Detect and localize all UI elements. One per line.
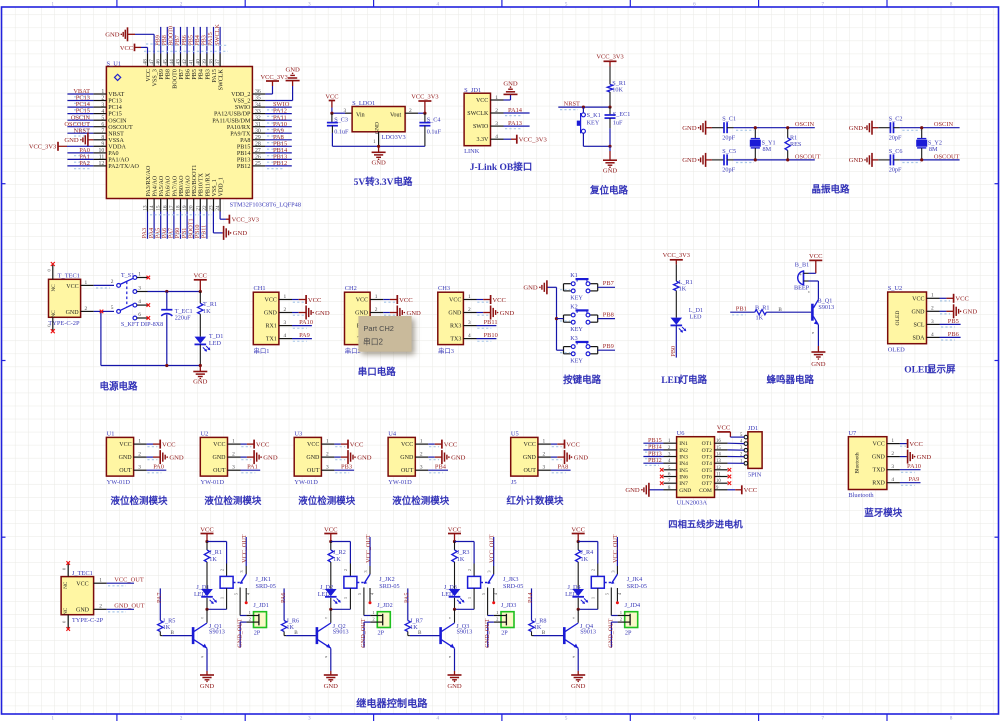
svg-text:GND: GND <box>324 683 339 690</box>
svg-text:VCC: VCC <box>76 582 88 588</box>
no-connect marks <box>147 276 151 320</box>
svg-text:SDA: SDA <box>912 335 925 341</box>
svg-text:1K: 1K <box>679 286 687 293</box>
svg-text:晶振电路: 晶振电路 <box>812 184 851 196</box>
wire PA8 <box>265 139 291 141</box>
wire power bottom rail <box>101 365 200 367</box>
connector S_JD1 body <box>464 93 490 146</box>
svg-text:46: 46 <box>156 59 162 65</box>
svg-text:PA8: PA8 <box>240 138 250 144</box>
wire PB14 <box>265 152 291 154</box>
svg-text:2: 2 <box>591 569 596 571</box>
svg-text:PB2/BOOT1: PB2/BOOT1 <box>192 165 198 197</box>
capacitor S_C4 <box>419 113 441 146</box>
MCU S_U1 body <box>106 67 252 199</box>
wire GND <box>241 456 247 458</box>
svg-text:GND: GND <box>447 683 462 690</box>
svg-text:S_C4: S_C4 <box>427 116 441 123</box>
MCU pin 26 PB13 <box>237 155 266 164</box>
wire GND <box>940 310 947 312</box>
svg-text:S9013: S9013 <box>333 629 349 636</box>
svg-text:TX3: TX3 <box>450 337 461 343</box>
wire PA1 <box>67 158 93 160</box>
wire LED to rail <box>199 344 201 365</box>
capacitor S_EC1 plates <box>605 114 616 116</box>
U4 pin 1 VCC <box>401 439 428 449</box>
svg-text:PA2/TX/AO: PA2/TX/AO <box>108 164 139 170</box>
wire LDO Vout <box>418 112 425 114</box>
svg-text:J_TEC1: J_TEC1 <box>72 570 93 577</box>
U1 pin 3 OUT <box>119 465 146 475</box>
connector T_TEC1 body <box>49 279 81 317</box>
resistor J_R4 zigzag <box>576 550 581 562</box>
U6 pin 7 IN7 <box>664 479 689 487</box>
svg-text:1: 1 <box>326 439 329 445</box>
svg-text:SWCLK: SWCLK <box>219 69 225 91</box>
svg-text:1: 1 <box>375 294 378 300</box>
svg-text:1K: 1K <box>333 556 341 563</box>
wire PB1 to base resistor <box>730 311 755 313</box>
svg-text:KEY: KEY <box>587 120 600 127</box>
designator B_Q1 <box>778 289 834 335</box>
svg-text:OSCIN: OSCIN <box>795 121 815 128</box>
svg-text:S_LDO1: S_LDO1 <box>352 100 375 107</box>
junction <box>165 290 168 293</box>
svg-text:S_K1: S_K1 <box>587 112 601 119</box>
J_JD2 pins <box>370 610 383 626</box>
wire LED to PB0 <box>675 325 677 357</box>
MCU pin 39 PB3 <box>202 54 211 80</box>
svg-text:串口2: 串口2 <box>345 347 361 355</box>
MCU pin 38 PA15 <box>209 54 218 83</box>
wire emitter to ground <box>206 648 208 671</box>
svg-text:PC14: PC14 <box>108 105 122 111</box>
wire VCC to relay coil <box>455 542 475 564</box>
svg-text:35: 35 <box>255 96 261 102</box>
connector J_JD1 body <box>254 612 267 628</box>
svg-text:OSCOUT: OSCOUT <box>934 153 960 160</box>
ground at buzzer <box>811 346 826 368</box>
MCU pin 4 PC15 <box>93 109 121 118</box>
svg-text:VCC: VCC <box>399 297 413 304</box>
wire OSCOUT <box>734 159 815 161</box>
resistor S_R1 <box>607 67 626 108</box>
module U5 body <box>511 437 538 476</box>
svg-text:VSSA: VSSA <box>108 138 124 144</box>
wire GND <box>383 312 390 314</box>
svg-text:U3: U3 <box>294 431 302 438</box>
svg-text:OT6: OT6 <box>702 475 712 481</box>
svg-text:蓝牙模块: 蓝牙模块 <box>864 507 903 519</box>
DIP switch T_S1 <box>111 271 163 328</box>
MCU pin 14 PA4/AO <box>149 175 158 211</box>
svg-text:23: 23 <box>209 205 215 211</box>
svg-text:VBAT: VBAT <box>108 92 124 98</box>
svg-text:2P: 2P <box>378 629 385 636</box>
svg-text:OUT: OUT <box>119 468 132 474</box>
LED L_D1 <box>671 318 683 325</box>
svg-text:J_JD2: J_JD2 <box>377 602 392 609</box>
svg-text:GND: GND <box>448 311 462 317</box>
module U3 body <box>294 437 321 476</box>
CH1 pin 2 GND <box>264 307 292 317</box>
svg-text:6: 6 <box>138 312 141 318</box>
svg-text:GND: GND <box>264 311 278 317</box>
svg-text:OT7: OT7 <box>702 481 712 487</box>
svg-text:红外计数模块: 红外计数模块 <box>507 495 565 507</box>
U6 pin 13 OT4 <box>702 459 728 467</box>
power VCC at CH1 pin1 <box>299 295 322 304</box>
J_TEC1 pin names <box>63 581 89 615</box>
svg-text:IN6: IN6 <box>679 475 688 481</box>
svg-text:5PIN: 5PIN <box>748 471 762 478</box>
svg-text:OUT: OUT <box>524 468 537 474</box>
relay coil J_JK3 <box>467 564 481 610</box>
crystal S_Y2 <box>917 128 942 160</box>
relay contact NC <box>233 588 240 616</box>
svg-text:25: 25 <box>255 161 261 167</box>
ground at LDO <box>371 146 386 166</box>
svg-text:42: 42 <box>182 59 188 65</box>
CH1 pin 4 TX1 <box>266 333 292 343</box>
svg-text:20pF: 20pF <box>889 134 902 141</box>
svg-text:VCC: VCC <box>265 298 277 304</box>
wire LED cathode to coil <box>331 598 351 610</box>
svg-text:c: c <box>449 615 451 620</box>
wire GND_OUT from JD pin2 <box>611 622 617 648</box>
svg-text:VCC: VCC <box>119 442 131 448</box>
svg-text:3: 3 <box>284 320 287 326</box>
wire OT2 to JD1 <box>728 449 745 451</box>
svg-text:GND: GND <box>849 157 864 164</box>
wire PB10 <box>383 338 403 340</box>
svg-text:GND: GND <box>315 310 330 317</box>
MCU pin 15 PA5/AO <box>156 175 165 211</box>
MCU pin 34 SWIO <box>235 102 266 111</box>
wire contact to JD pin1 <box>488 615 494 617</box>
svg-text:PA12/USB/DP: PA12/USB/DP <box>214 112 251 118</box>
svg-text:GND: GND <box>503 80 518 87</box>
svg-text:3: 3 <box>468 320 471 326</box>
svg-text:VCC_3V3: VCC_3V3 <box>663 252 690 259</box>
resistor J_R2 <box>328 542 346 590</box>
LDO pin 2 <box>405 108 418 114</box>
svg-text:19: 19 <box>182 205 188 211</box>
ground at U2 <box>247 450 278 464</box>
svg-text:GND: GND <box>872 455 886 461</box>
svg-text:2: 2 <box>85 306 88 312</box>
svg-text:1: 1 <box>931 293 934 299</box>
svg-text:VCC: VCC <box>325 93 338 100</box>
push button K1 <box>564 272 598 302</box>
driver U6 body <box>677 437 715 498</box>
wire <box>557 349 564 351</box>
svg-text:PB4: PB4 <box>435 464 447 471</box>
svg-text:GND: GND <box>375 122 381 134</box>
svg-text:S_C5: S_C5 <box>722 148 736 155</box>
power VCC_3V3 at S_JD1 pin4 <box>511 135 548 144</box>
transistor J_Q1 S9013 <box>193 623 207 648</box>
CH3 pin 4 TX3 <box>450 333 476 343</box>
no-connect mark <box>728 481 732 485</box>
svg-text:U1: U1 <box>107 431 115 438</box>
svg-text:蜂鸣器电路: 蜂鸣器电路 <box>767 374 815 386</box>
resistor J_R3 <box>452 542 470 590</box>
T_TEC1 pin names <box>51 284 79 318</box>
resistor J_R6 <box>281 588 299 635</box>
power VCC at U2 <box>247 440 270 449</box>
svg-text:TXD: TXD <box>873 468 886 474</box>
svg-text:1K: 1K <box>457 556 465 563</box>
svg-text:PB1/AO: PB1/AO <box>186 175 192 197</box>
svg-text:VSS_1: VSS_1 <box>212 179 218 196</box>
svg-text:2: 2 <box>343 569 348 571</box>
no-connect mark <box>66 627 70 631</box>
LED J_D4 <box>572 589 584 596</box>
svg-text:OUT: OUT <box>307 468 320 474</box>
U2 pin 3 OUT <box>213 465 240 475</box>
svg-text:NRST: NRST <box>564 100 580 107</box>
svg-text:1: 1 <box>101 89 104 95</box>
wire VCC <box>334 443 340 445</box>
symbol diamond mark <box>114 74 120 80</box>
svg-text:PA9: PA9 <box>909 476 920 483</box>
wire PC14 <box>67 106 93 108</box>
MCU pin 47 VSS_3 <box>149 54 158 87</box>
svg-text:GND: GND <box>523 285 538 292</box>
designator J_D1 <box>194 584 209 598</box>
svg-text:PA10: PA10 <box>299 319 313 326</box>
LDO pin 3 <box>343 108 346 114</box>
svg-text:VCC_OUT: VCC_OUT <box>612 534 619 563</box>
svg-text:6: 6 <box>101 122 104 128</box>
svg-text:VDD_2: VDD_2 <box>231 92 250 98</box>
MCU pin 17 PA7/AO <box>169 175 178 211</box>
svg-text:GND: GND <box>263 454 278 461</box>
svg-text:串口3: 串口3 <box>438 347 454 355</box>
svg-text:VCC: VCC <box>356 298 368 304</box>
junction <box>608 145 611 148</box>
svg-text:21: 21 <box>195 205 201 211</box>
wire VCC <box>940 297 947 299</box>
wire PA13 <box>504 125 530 127</box>
junction <box>165 364 168 367</box>
wire PA7 <box>173 212 175 239</box>
svg-text:PB8: PB8 <box>603 311 614 318</box>
svg-text:1: 1 <box>85 280 88 286</box>
no-erc mark <box>100 310 104 314</box>
svg-text:27: 27 <box>255 148 261 154</box>
capacitor S_EC1 <box>605 107 631 146</box>
relay coil J_JK4 <box>591 564 605 610</box>
designator J_D2 <box>318 584 333 598</box>
junction <box>582 106 585 109</box>
svg-text:IN1: IN1 <box>679 441 688 447</box>
resistor J_R5 zigzag <box>158 621 163 632</box>
svg-text:GND: GND <box>625 487 640 494</box>
U5 pin 1 VCC <box>524 439 551 449</box>
svg-text:2: 2 <box>138 452 141 458</box>
junction <box>205 608 208 611</box>
ground at S_C6 left <box>849 153 879 167</box>
svg-text:VCC: VCC <box>744 487 758 494</box>
wire VCC_OUT at relay switch <box>616 537 618 566</box>
relay switch common pin <box>239 566 246 574</box>
svg-text:4: 4 <box>138 299 141 305</box>
svg-text:GND: GND <box>523 455 537 461</box>
svg-text:J_JD4: J_JD4 <box>625 602 640 609</box>
power VCC at U6 COM <box>735 485 758 494</box>
svg-text:CH1: CH1 <box>254 285 266 292</box>
power VCC at U5 <box>557 440 580 449</box>
wire VDDA to VCC_3V3 <box>58 145 67 147</box>
svg-text:VCC: VCC <box>476 98 488 104</box>
svg-text:1K: 1K <box>286 624 294 631</box>
svg-text:PB6: PB6 <box>948 331 959 338</box>
JD1 pin 4 <box>740 440 748 446</box>
U4 pin 3 OUT <box>401 465 428 475</box>
svg-text:e: e <box>201 654 203 659</box>
svg-text:5V转3.3V电路: 5V转3.3V电路 <box>354 176 413 188</box>
svg-text:1K: 1K <box>203 308 211 315</box>
designator B_R1 <box>755 305 769 322</box>
svg-text:GND_OUT: GND_OUT <box>114 603 144 610</box>
ground at relay 4 <box>571 671 586 690</box>
no-connect dot <box>616 601 619 604</box>
relay switch common pin <box>610 566 617 574</box>
MCU pin 12 PA2/TX/AO <box>93 161 139 170</box>
wire PB11 <box>383 325 403 327</box>
svg-text:2P: 2P <box>625 629 632 636</box>
wire PA1 <box>241 469 261 471</box>
svg-text:LED: LED <box>209 340 222 347</box>
wire VCC <box>383 299 390 301</box>
svg-text:LINK: LINK <box>464 148 480 155</box>
svg-text:1: 1 <box>420 439 423 445</box>
U7 pin 4 RXD <box>872 477 900 487</box>
MCU pin 33 PA12/USB/DP <box>214 109 265 118</box>
ground at MCU pin35 <box>285 67 300 86</box>
svg-text:2: 2 <box>891 451 894 457</box>
wire VBAT <box>67 93 93 95</box>
svg-text:S9013: S9013 <box>457 629 473 636</box>
U3 pin 3 OUT <box>307 465 334 475</box>
resistor J_R1 <box>204 542 222 590</box>
LED T_D1 <box>195 337 207 344</box>
relay switch arm <box>364 574 370 584</box>
svg-text:VCC_3V3: VCC_3V3 <box>261 74 288 81</box>
svg-text:GND: GND <box>603 167 618 174</box>
svg-text:B_R1: B_R1 <box>755 305 769 312</box>
wire PB13 <box>265 158 291 160</box>
relay dashed link <box>233 582 240 584</box>
svg-text:20pF: 20pF <box>722 167 735 174</box>
svg-text:40: 40 <box>195 59 201 65</box>
svg-text:YW-01D: YW-01D <box>388 479 412 486</box>
power VCC_3V3 at LDO output <box>411 93 438 113</box>
wire PB12 <box>643 462 663 464</box>
power VCC_3V3 at MCU pin9 <box>29 142 58 151</box>
wire VCC <box>900 443 907 445</box>
svg-text:GND: GND <box>357 454 372 461</box>
wire LED cathode to coil <box>455 598 475 610</box>
module U1 body <box>106 437 133 476</box>
svg-text:3: 3 <box>326 465 329 471</box>
U6 pin 8 GND <box>664 486 692 494</box>
junction <box>329 608 332 611</box>
svg-text:3: 3 <box>138 285 141 291</box>
MCU pin 10 PA0 <box>93 148 118 157</box>
svg-text:OUT: OUT <box>213 468 226 474</box>
MCU pin 11 PA1/AO <box>93 155 129 164</box>
svg-text:1: 1 <box>284 294 287 300</box>
svg-text:24: 24 <box>215 205 221 211</box>
svg-text:VCC: VCC <box>492 297 506 304</box>
svg-text:Part CH2: Part CH2 <box>364 324 394 333</box>
resistor J_R8 zigzag <box>529 621 534 632</box>
svg-text:18: 18 <box>176 205 182 211</box>
svg-text:20pF: 20pF <box>889 167 902 174</box>
svg-text:20: 20 <box>189 205 195 211</box>
designator J_D4 <box>565 584 580 598</box>
relay dashed link <box>604 582 611 584</box>
wire VCC_OUT <box>107 582 134 584</box>
wire GND_OUT <box>107 608 134 610</box>
relay contact NC <box>357 588 364 616</box>
wire GND <box>428 456 434 458</box>
wire PA14 <box>504 112 530 114</box>
wire GND_OUT from JD pin2 <box>364 622 370 648</box>
svg-text:CH2: CH2 <box>345 285 357 292</box>
svg-text:1: 1 <box>591 597 596 599</box>
svg-text:GND: GND <box>574 454 589 461</box>
svg-text:OT2: OT2 <box>702 448 712 454</box>
svg-text:T_TEC1: T_TEC1 <box>58 272 80 279</box>
capacitor S_C6 <box>878 148 902 174</box>
wire emitter to ground <box>817 325 819 346</box>
wire emitter to ground <box>330 648 332 671</box>
power VCC_3V3 at reset <box>596 54 623 67</box>
svg-text:PA4: PA4 <box>527 593 534 603</box>
S_U2 pin 3 SCL <box>913 319 939 329</box>
svg-text:PB10: PB10 <box>484 332 498 339</box>
wire PB5 <box>940 323 961 325</box>
svg-text:GND: GND <box>679 488 691 494</box>
svg-text:GND: GND <box>193 379 208 386</box>
MCU pin 20 PB2/BOOT1 <box>189 165 198 212</box>
U6 pin 6 IN6 <box>664 473 689 481</box>
svg-text:33: 33 <box>255 109 261 115</box>
svg-text:灯电路: 灯电路 <box>679 374 708 386</box>
svg-text:GND: GND <box>849 125 864 132</box>
power VCC at U4 <box>435 440 458 449</box>
svg-text:VCC_OUT: VCC_OUT <box>365 534 372 563</box>
wire PA9 <box>292 338 312 340</box>
svg-text:29: 29 <box>255 135 261 141</box>
svg-text:电源电路: 电源电路 <box>100 380 139 392</box>
svg-text:16: 16 <box>162 205 168 211</box>
CH3 pin 2 GND <box>448 307 476 317</box>
designator J_D3 <box>441 584 456 598</box>
CH2 pin 2 GND <box>355 307 383 317</box>
designator T_D1 <box>209 333 223 347</box>
ground at relay 1 <box>200 671 215 690</box>
S_U2 pin 4 SDA <box>912 332 939 342</box>
MCU pin 44 BOOT0 <box>169 54 178 89</box>
wire PB1 <box>186 212 188 239</box>
U2 pin 2 GND <box>213 452 241 462</box>
push button S_K1 <box>577 107 601 146</box>
